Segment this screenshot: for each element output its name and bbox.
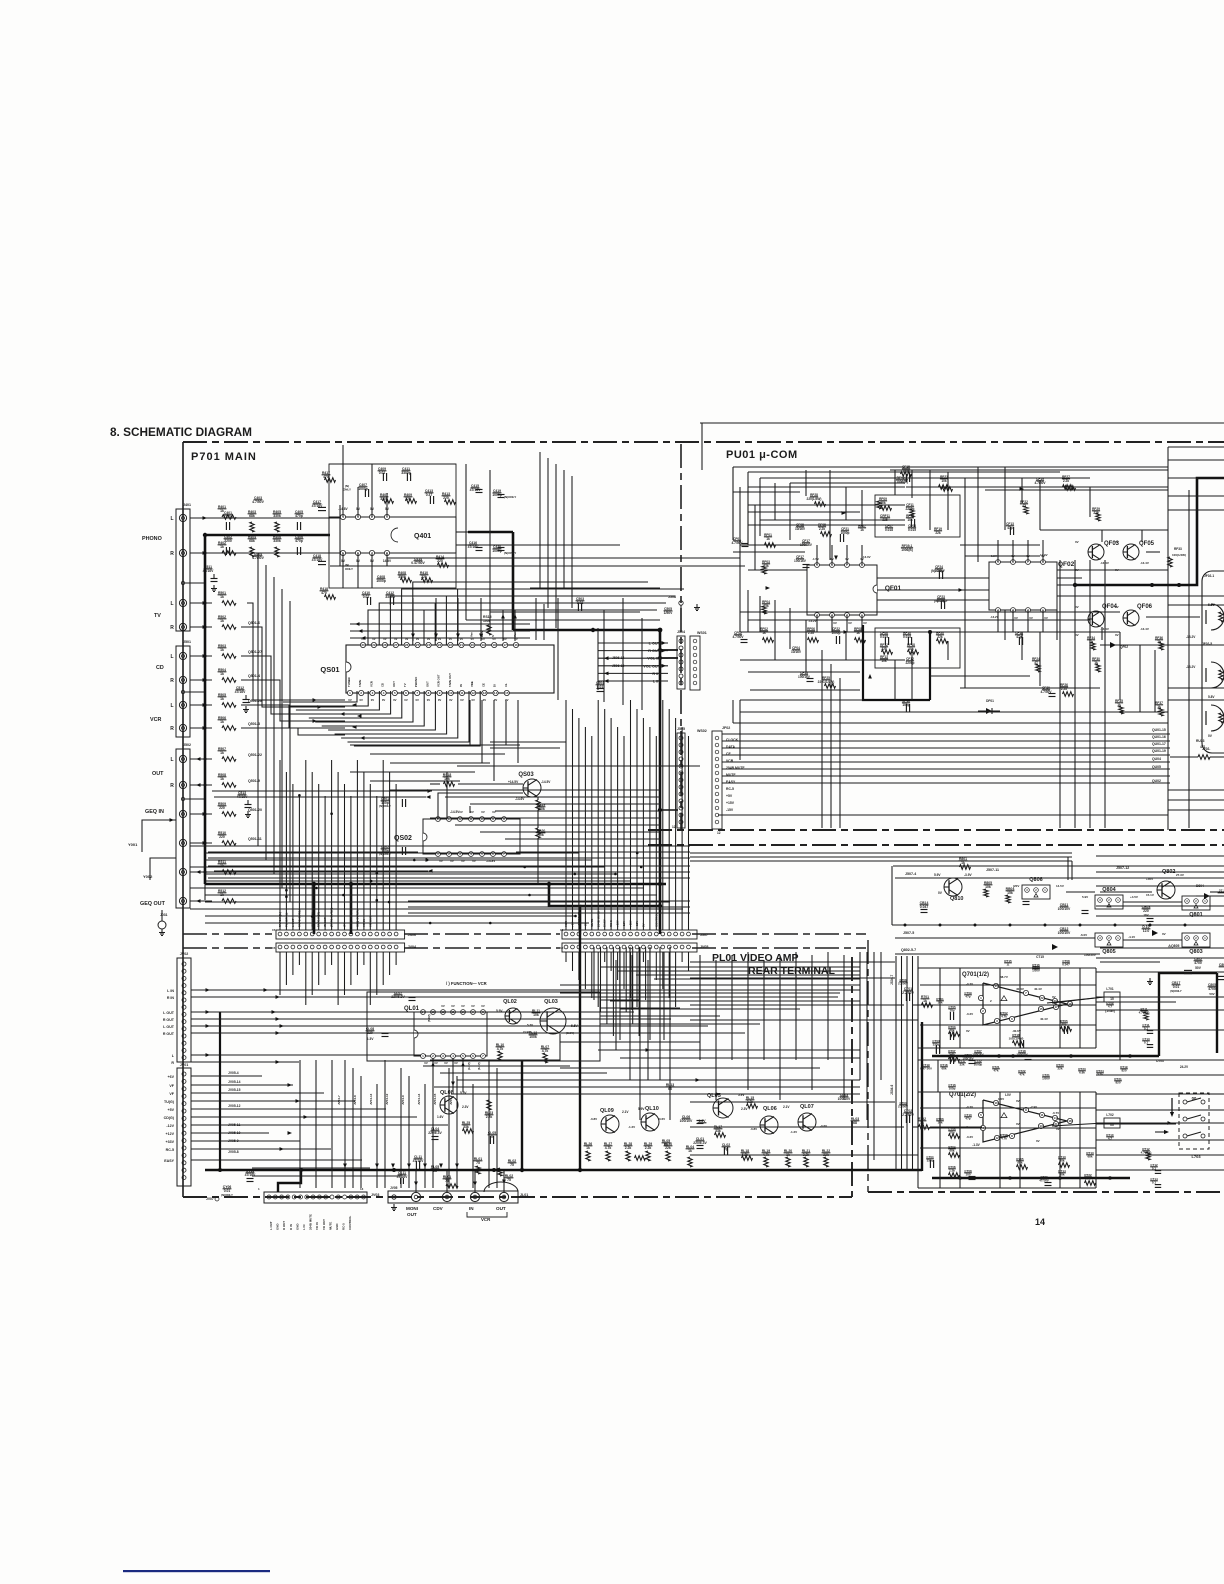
- svg-text:MUTE: MUTE: [328, 1222, 332, 1230]
- svg-text:1.0V: 1.0V: [998, 1097, 1004, 1101]
- svg-text:J031: J031: [160, 913, 168, 917]
- svg-text:L702: L702: [1106, 1113, 1113, 1117]
- svg-text:47p: 47p: [965, 1117, 970, 1121]
- svg-text:CE: CE: [481, 683, 485, 687]
- svg-text:Q803: Q803: [1189, 949, 1202, 955]
- svg-text:15: 15: [560, 946, 564, 950]
- svg-text:JV05-14: JV05-14: [228, 1080, 241, 1084]
- svg-text:TAPE: TAPE: [358, 680, 362, 687]
- svg-text:14.5V: 14.5V: [1056, 884, 1064, 888]
- svg-text:0V: 0V: [454, 1061, 458, 1065]
- svg-text:+12V: +12V: [166, 1132, 175, 1136]
- svg-text:75: 75: [510, 1163, 514, 1167]
- svg-text:DI: DI: [493, 684, 497, 687]
- svg-text:47/16V: 47/16V: [413, 1159, 424, 1163]
- svg-text:0V: 0V: [481, 810, 485, 814]
- svg-text:WS02: WS02: [697, 729, 707, 733]
- svg-text:23: 23: [438, 643, 442, 647]
- svg-text:0V: 0V: [404, 698, 408, 702]
- svg-text:0V: 0V: [1029, 616, 1033, 620]
- svg-text:100/16V: 100/16V: [972, 1053, 983, 1057]
- svg-text:+33V: +33V: [166, 1140, 175, 1144]
- svg-text:JV04-8: JV04-8: [353, 1095, 357, 1105]
- svg-text:0V: 0V: [1115, 633, 1119, 637]
- svg-text:-14.5V: -14.5V: [541, 780, 551, 784]
- svg-text:CONTROL: CONTROL: [348, 1215, 352, 1230]
- svg-text:0V: 0V: [444, 1061, 448, 1065]
- svg-text:OUT: OUT: [425, 681, 429, 687]
- svg-text:R: R: [170, 678, 174, 684]
- svg-text:0V: 0V: [459, 810, 463, 814]
- svg-text:0V: 0V: [449, 698, 453, 702]
- svg-text:JV05-15: JV05-15: [228, 1088, 241, 1092]
- svg-text:1/50V: 1/50V: [1042, 1077, 1050, 1081]
- svg-text:QL10: QL10: [645, 1106, 659, 1112]
- svg-text:29: 29: [372, 643, 376, 647]
- svg-text:68k: 68k: [949, 1149, 954, 1153]
- svg-text:4.7/50V: 4.7/50V: [732, 541, 744, 545]
- svg-text:2.3V: 2.3V: [741, 1107, 748, 1111]
- svg-text:12: 12: [717, 831, 721, 835]
- svg-text:Q501-27: Q501-27: [248, 650, 262, 654]
- svg-text:Q810: Q810: [950, 896, 963, 902]
- svg-text:JV05-12: JV05-12: [228, 1104, 241, 1108]
- svg-text:-13.4V: -13.4V: [1100, 561, 1109, 565]
- svg-text:2.2/50V: 2.2/50V: [898, 1105, 908, 1109]
- svg-text:-13.2V: -13.2V: [1186, 635, 1196, 639]
- svg-text:100(1/4W): 100(1/4W): [1172, 553, 1186, 557]
- svg-text:QS03: QS03: [518, 772, 534, 778]
- svg-text:10k: 10k: [941, 479, 947, 483]
- svg-text:JS04-6: JS04-6: [890, 1084, 894, 1095]
- svg-text:15k: 15k: [1007, 891, 1013, 895]
- svg-text:0.047: 0.047: [920, 905, 929, 909]
- svg-text:220/6.3V: 220/6.3V: [428, 1131, 442, 1135]
- svg-text:QS02: QS02: [394, 835, 412, 842]
- svg-text:0.47: 0.47: [426, 493, 433, 497]
- svg-text:10: 10: [449, 691, 453, 695]
- svg-text:68k: 68k: [249, 539, 255, 543]
- svg-text:47p: 47p: [965, 995, 970, 999]
- svg-text:TAPE OUT: TAPE OUT: [448, 673, 452, 687]
- svg-text:1k: 1k: [220, 595, 224, 599]
- svg-text:QL03: QL03: [544, 999, 558, 1005]
- svg-text:QU01-15: QU01-15: [1152, 728, 1166, 732]
- svg-text:10k: 10k: [881, 659, 887, 663]
- svg-text:22k: 22k: [1057, 1067, 1062, 1071]
- svg-text:-13.4V: -13.4V: [1100, 627, 1109, 631]
- svg-text:17: 17: [1054, 1005, 1058, 1009]
- svg-text:10: 10: [994, 1101, 998, 1105]
- svg-text:22k: 22k: [1085, 1177, 1090, 1181]
- svg-text:15: 15: [560, 928, 564, 932]
- svg-text:GND: GND: [276, 1224, 280, 1230]
- svg-text:24.2V: 24.2V: [1180, 1065, 1189, 1069]
- svg-text:J507-5: J507-5: [903, 931, 914, 935]
- svg-text:-12V: -12V: [166, 1124, 174, 1128]
- svg-text:1006(B): 1006(B): [901, 548, 913, 552]
- svg-text:JV04-7: JV04-7: [337, 1095, 341, 1105]
- svg-text:0V: 0V: [966, 1029, 970, 1033]
- svg-text:15.1V: 15.1V: [1146, 893, 1154, 897]
- svg-text:-0.8V: -0.8V: [750, 1127, 757, 1131]
- svg-text:14: 14: [1053, 1116, 1057, 1120]
- svg-text:QU05: QU05: [1152, 765, 1161, 769]
- svg-text:+4.5V: +4.5V: [1130, 895, 1138, 899]
- svg-text:100k: 100k: [529, 1035, 537, 1039]
- svg-text:12: 12: [472, 691, 476, 695]
- svg-text:1k: 1k: [220, 619, 224, 623]
- svg-text:18: 18: [1068, 1119, 1072, 1123]
- svg-text:GEQ OUT: GEQ OUT: [140, 901, 166, 907]
- svg-text:10k: 10k: [533, 1013, 539, 1017]
- svg-text:68: 68: [853, 1121, 857, 1125]
- svg-text:0V: 0V: [438, 698, 442, 702]
- svg-text:-13.0V: -13.0V: [862, 555, 871, 559]
- svg-text:(N)ONLY: (N)ONLY: [504, 551, 516, 555]
- svg-text:100/50V: 100/50V: [1084, 953, 1097, 957]
- svg-text:L: L: [170, 654, 173, 660]
- svg-text:OUT: OUT: [496, 1206, 506, 1211]
- svg-text:JV04-13: JV04-13: [369, 1093, 373, 1105]
- svg-text:10k: 10k: [937, 1121, 942, 1125]
- svg-text:R: R: [170, 783, 174, 789]
- svg-text:R: R: [170, 726, 174, 732]
- svg-text:27: 27: [394, 643, 398, 647]
- svg-text:-1.5V: -1.5V: [812, 557, 819, 561]
- svg-text:1k: 1k: [860, 528, 864, 532]
- svg-text:5.8V: 5.8V: [1208, 695, 1215, 699]
- svg-text:68k: 68k: [249, 514, 255, 518]
- svg-text:+5V: +5V: [168, 1108, 175, 1112]
- svg-text:2.2k: 2.2k: [819, 527, 825, 531]
- svg-text:CDV: CDV: [433, 1206, 444, 1211]
- svg-text:L OUT: L OUT: [163, 1011, 175, 1015]
- svg-text:0V: 0V: [359, 698, 363, 702]
- svg-text:3300p: 3300p: [401, 471, 411, 475]
- svg-text:0V: 0V: [424, 1061, 428, 1065]
- svg-text:13.0V: 13.0V: [1040, 553, 1048, 557]
- svg-text:0V: 0V: [461, 1004, 465, 1008]
- svg-text:2.2/50V: 2.2/50V: [898, 982, 908, 986]
- svg-text:100/16V: 100/16V: [794, 559, 807, 563]
- svg-text:VF: VF: [169, 1084, 174, 1088]
- svg-text:38.7V: 38.7V: [1000, 975, 1008, 979]
- svg-text:22k: 22k: [937, 635, 943, 639]
- svg-text:Q805: Q805: [1102, 949, 1115, 955]
- svg-text:GND: GND: [295, 1224, 299, 1230]
- svg-text:Q801: Q801: [1189, 912, 1202, 918]
- svg-text:L OUT: L OUT: [269, 1221, 273, 1230]
- svg-text:0.015: 0.015: [908, 528, 916, 532]
- svg-text:0V: 0V: [1016, 1122, 1020, 1126]
- svg-text:0.47/50V: 0.47/50V: [411, 561, 425, 565]
- svg-text:0V: 0V: [460, 698, 464, 702]
- svg-text:26: 26: [405, 643, 409, 647]
- svg-text:L OUT: L OUT: [163, 1025, 175, 1029]
- svg-text:1000p: 1000p: [376, 579, 386, 583]
- svg-text:100p: 100p: [949, 1087, 956, 1091]
- svg-text:TU(G): TU(G): [164, 1100, 175, 1104]
- svg-text:JV05: JV05: [390, 1186, 398, 1190]
- svg-text:1k: 1k: [586, 1146, 590, 1150]
- svg-text:IN: IN: [469, 1206, 474, 1211]
- svg-text:QU04: QU04: [1152, 757, 1161, 761]
- svg-text:JS06: JS06: [408, 933, 416, 937]
- svg-text:JF02: JF02: [722, 726, 730, 730]
- svg-text:CD(G): CD(G): [164, 1116, 175, 1120]
- svg-text:1.5k: 1.5k: [949, 1169, 955, 1173]
- svg-text:12.0: 12.0: [1143, 929, 1150, 933]
- svg-text:1k: 1k: [220, 751, 224, 755]
- svg-text:75: 75: [476, 1161, 480, 1165]
- svg-text:1000p: 1000p: [840, 531, 849, 535]
- svg-text:1k: 1k: [766, 537, 770, 541]
- svg-text:ONLY: ONLY: [343, 488, 351, 492]
- svg-text:4.7: 4.7: [1108, 1005, 1113, 1009]
- svg-text:0.1: 0.1: [1144, 1041, 1149, 1045]
- svg-text:J502: J502: [183, 743, 191, 747]
- svg-text:J505: J505: [677, 727, 685, 731]
- svg-text:10k: 10k: [985, 885, 991, 889]
- svg-text:4.7k: 4.7k: [497, 1047, 504, 1051]
- svg-text:MONI: MONI: [406, 1206, 418, 1211]
- svg-text:220: 220: [219, 806, 225, 810]
- svg-text:220: 220: [219, 835, 225, 839]
- svg-text:QF01: QF01: [885, 585, 902, 592]
- svg-text:R: R: [171, 1061, 174, 1065]
- svg-text:JV04-14: JV04-14: [417, 1093, 421, 1105]
- svg-text:CL: CL: [504, 683, 508, 687]
- svg-text:330k: 330k: [273, 514, 281, 518]
- svg-text:JV04-12: JV04-12: [385, 1093, 389, 1105]
- svg-text:1k: 1k: [856, 631, 860, 635]
- svg-text:4.7k: 4.7k: [1001, 1137, 1007, 1141]
- svg-text:J507: J507: [700, 933, 708, 937]
- svg-text:L701: L701: [1106, 987, 1113, 991]
- svg-text:JV04: JV04: [408, 945, 416, 949]
- svg-text:OUT: OUT: [407, 1212, 417, 1217]
- svg-text:0V: 0V: [848, 621, 852, 625]
- svg-text:-4.1V: -4.1V: [1128, 935, 1135, 939]
- svg-text:J507-4: J507-4: [905, 872, 916, 876]
- svg-text:15: 15: [505, 691, 509, 695]
- svg-text:L: L: [170, 703, 173, 709]
- svg-text:1.6V: 1.6V: [437, 1115, 444, 1119]
- svg-text:0V: 0V: [371, 698, 375, 702]
- svg-text:Y002: Y002: [143, 874, 153, 879]
- svg-text:0V: 0V: [1075, 605, 1079, 609]
- svg-text:/ ) FUNCTION— VCR: / ) FUNCTION— VCR: [446, 981, 487, 986]
- svg-text:VCR: VCR: [369, 681, 373, 687]
- svg-text:Vee: Vee: [469, 632, 473, 637]
- svg-text:0V: 0V: [1036, 1139, 1040, 1143]
- svg-text:19: 19: [482, 643, 486, 647]
- svg-text:-13.2V: -13.2V: [1186, 665, 1196, 669]
- svg-text:0.018: 0.018: [885, 528, 893, 532]
- svg-text:(N)ONLY: (N)ONLY: [504, 495, 516, 499]
- svg-text:R OUT: R OUT: [282, 1221, 286, 1230]
- svg-text:0V: 0V: [441, 1004, 445, 1008]
- svg-text:R OUT: R OUT: [163, 1032, 175, 1036]
- svg-text:1k: 1k: [220, 697, 224, 701]
- svg-text:0V: 0V: [483, 698, 487, 702]
- svg-text:⚠: ⚠: [1007, 963, 1010, 967]
- svg-text:Q701(1/2): Q701(1/2): [962, 972, 989, 978]
- svg-text:1k: 1k: [688, 1149, 692, 1153]
- svg-text:4.7k: 4.7k: [605, 1146, 612, 1150]
- svg-text:4700: 4700: [1208, 987, 1216, 991]
- svg-text:QF06: QF06: [1137, 604, 1153, 610]
- svg-text:50V: 50V: [1195, 966, 1202, 970]
- svg-text:RC-5: RC-5: [342, 1223, 346, 1230]
- svg-text:TV: TV: [154, 613, 161, 619]
- svg-text:0.47 50V: 0.47 50V: [920, 1067, 932, 1071]
- svg-text:(N) ONLY: (N) ONLY: [931, 569, 946, 573]
- svg-text:JV04-15: JV04-15: [433, 1093, 437, 1105]
- svg-text:47k: 47k: [993, 1069, 998, 1073]
- svg-text:OUT: OUT: [392, 681, 396, 687]
- svg-text:Q806: Q806: [1029, 877, 1042, 883]
- svg-text:+14.5V: +14.5V: [508, 780, 519, 784]
- svg-text:33k: 33k: [463, 1125, 469, 1129]
- svg-text:-1.2V: -1.2V: [628, 1125, 635, 1129]
- svg-text:68: 68: [664, 1143, 668, 1147]
- svg-text:1k: 1k: [762, 631, 766, 635]
- svg-text:1k: 1k: [220, 545, 224, 549]
- svg-text:2.2k: 2.2k: [1063, 479, 1069, 483]
- svg-text:QU01-17: QU01-17: [1152, 742, 1166, 746]
- svg-text:0.047: 0.047: [1062, 963, 1070, 967]
- svg-text:L: L: [170, 757, 173, 763]
- svg-text:-15V: -15V: [726, 808, 734, 812]
- svg-text:VR OUT: VR OUT: [322, 1219, 326, 1230]
- svg-text:50V: 50V: [1209, 992, 1214, 996]
- svg-text:10k: 10k: [907, 518, 913, 522]
- svg-text:QL01: QL01: [404, 1006, 420, 1012]
- svg-text:+15V: +15V: [726, 801, 735, 805]
- svg-text:-3.9V: -3.9V: [964, 873, 972, 877]
- svg-text:L IN: L IN: [167, 989, 174, 993]
- svg-text:R: R: [170, 625, 174, 631]
- svg-text:0V: 0V: [1014, 616, 1018, 620]
- svg-text:0V: 0V: [863, 621, 867, 625]
- svg-text:47/16V: 47/16V: [235, 690, 246, 694]
- svg-text:QL06: QL06: [763, 1106, 777, 1112]
- svg-text:PHONO: PHONO: [142, 536, 162, 542]
- svg-text:0V: 0V: [427, 698, 431, 702]
- svg-text:2.1V: 2.1V: [622, 1110, 629, 1114]
- svg-text:(5.9V): (5.9V): [427, 1014, 431, 1022]
- svg-text:JF02-: JF02-: [1202, 747, 1210, 751]
- svg-text:QF05: QF05: [1139, 541, 1155, 547]
- svg-text:17: 17: [503, 643, 507, 647]
- svg-text:J507-12: J507-12: [1116, 866, 1129, 870]
- svg-text:21: 21: [460, 643, 464, 647]
- svg-text:4.7k: 4.7k: [542, 1049, 549, 1053]
- svg-text:0V: 0V: [348, 698, 352, 702]
- svg-text:13: 13: [360, 1187, 364, 1191]
- svg-text:22: 22: [449, 643, 453, 647]
- svg-text:CT15: CT15: [1036, 955, 1044, 959]
- svg-text:J501: J501: [183, 640, 191, 644]
- svg-text:2200: 2200: [224, 539, 232, 543]
- svg-text:R IN: R IN: [289, 1224, 293, 1230]
- svg-text:2.3V: 2.3V: [462, 1105, 469, 1109]
- svg-text:4700: 4700: [1194, 961, 1202, 965]
- svg-text:CD: CD: [156, 665, 164, 671]
- svg-text:220/6.3V: 220/6.3V: [693, 1141, 707, 1145]
- svg-text:33k: 33k: [959, 1063, 964, 1067]
- svg-text:2.1V: 2.1V: [783, 1105, 790, 1109]
- svg-text:-0.8V: -0.8V: [590, 1117, 597, 1121]
- svg-text:R IN: R IN: [167, 996, 175, 1000]
- svg-text:J507-11: J507-11: [986, 868, 999, 872]
- svg-text:JV05: JV05: [700, 945, 708, 949]
- svg-text:Q501-11: Q501-11: [248, 837, 262, 841]
- svg-text:00: 00: [1192, 1096, 1197, 1101]
- svg-text:RC-5: RC-5: [726, 787, 734, 791]
- svg-text:TUNER: TUNER: [347, 677, 351, 687]
- svg-text:0.01: 0.01: [379, 471, 386, 475]
- svg-text:14: 14: [1035, 1217, 1045, 1227]
- svg-text:13: 13: [483, 691, 487, 695]
- svg-text:0V: 0V: [1162, 932, 1166, 936]
- svg-text:2.2k: 2.2k: [486, 1115, 493, 1119]
- svg-text:0V: 0V: [451, 1004, 455, 1008]
- svg-text:0V: 0V: [471, 698, 475, 702]
- svg-text:5.9V: 5.9V: [934, 873, 941, 877]
- svg-text:QU01-19: QU01-19: [1152, 749, 1166, 753]
- svg-text:11: 11: [1040, 1113, 1044, 1117]
- svg-text:S: S: [491, 635, 495, 637]
- svg-text:(N)ONLY: (N)ONLY: [221, 1193, 233, 1197]
- svg-text:QF02: QF02: [1120, 645, 1128, 649]
- svg-text:27.3V: 27.3V: [1176, 873, 1184, 877]
- svg-text:WS01: WS01: [697, 631, 707, 635]
- svg-text:JV05-4: JV05-4: [228, 1071, 239, 1075]
- svg-text:100 (1/4W): 100 (1/4W): [1009, 1037, 1024, 1041]
- svg-text:0V: 0V: [470, 810, 474, 814]
- svg-text:0V: 0V: [382, 698, 386, 702]
- svg-text:6.8k: 6.8k: [1079, 1071, 1085, 1075]
- svg-text:+45V: +45V: [1146, 877, 1153, 881]
- svg-text:-1.2V: -1.2V: [790, 1130, 797, 1134]
- svg-text:VR IN: VR IN: [315, 1222, 319, 1230]
- svg-text:25: 25: [416, 643, 420, 647]
- svg-text:5.9V: 5.9V: [638, 1107, 645, 1111]
- svg-text:Q701(2/2): Q701(2/2): [949, 1092, 976, 1098]
- svg-text:L0V: L0V: [1005, 1093, 1012, 1097]
- svg-text:470p: 470p: [295, 539, 303, 543]
- svg-text:6.3V: 6.3V: [367, 1037, 375, 1041]
- svg-text:L: L: [170, 601, 173, 607]
- svg-text:TV: TV: [403, 683, 407, 687]
- svg-text:Q501-22: Q501-22: [248, 753, 262, 757]
- svg-text:2.2k: 2.2k: [645, 1146, 652, 1150]
- svg-text:5.9V: 5.9V: [1082, 895, 1088, 899]
- svg-text:4.7/50V: 4.7/50V: [733, 635, 745, 639]
- svg-text:QL02: QL02: [503, 999, 517, 1005]
- svg-text:JV04-9: JV04-9: [401, 1095, 405, 1105]
- svg-text:VCR: VCR: [481, 1217, 491, 1222]
- svg-text:68k: 68k: [941, 1067, 946, 1071]
- svg-text:J504: J504: [677, 630, 685, 634]
- svg-text:30: 30: [361, 643, 365, 647]
- svg-text:33k: 33k: [715, 1129, 721, 1133]
- svg-text:4.7k: 4.7k: [1001, 1015, 1007, 1019]
- svg-text:-13.2V: -13.2V: [990, 615, 999, 619]
